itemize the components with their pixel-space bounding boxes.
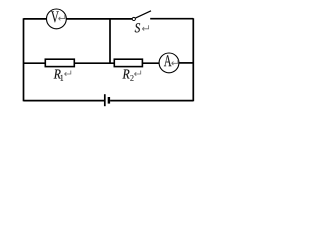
wire middle row left bbox=[24, 62, 46, 64]
R1 return mark bbox=[65, 70, 71, 75]
resistor R1 box bbox=[45, 59, 74, 66]
wire top middle segment bbox=[66, 18, 132, 20]
wire middle row center bbox=[74, 62, 114, 64]
battery long plate bbox=[104, 94, 106, 106]
wire bottom right segment bbox=[110, 100, 193, 102]
wire top left segment bbox=[24, 18, 47, 20]
wire middle vertical bbox=[109, 19, 111, 63]
switch return mark bbox=[142, 25, 148, 30]
resistor R2 box bbox=[114, 59, 142, 66]
ammeter return mark bbox=[172, 60, 178, 65]
wire left vertical bbox=[23, 18, 25, 101]
R2 return mark bbox=[134, 70, 140, 75]
switch S label bbox=[135, 23, 140, 32]
wire bottom left segment bbox=[24, 100, 105, 102]
voltmeter return mark bbox=[59, 15, 65, 20]
wire middle row to right edge bbox=[179, 62, 193, 64]
ammeter A label bbox=[164, 55, 172, 66]
switch S blade bbox=[135, 11, 151, 18]
resistor R1 label R bbox=[54, 70, 61, 79]
wire top right segment bbox=[150, 18, 193, 20]
voltmeter circle bbox=[47, 9, 67, 29]
wire right vertical bbox=[192, 18, 194, 101]
ammeter circle bbox=[159, 53, 179, 73]
resistor R1 subscript 1 bbox=[61, 75, 63, 81]
voltmeter V label bbox=[51, 11, 59, 22]
wire middle row right of R2 bbox=[142, 62, 159, 64]
switch S pivot circle bbox=[132, 17, 135, 20]
resistor R2 subscript 2 bbox=[130, 75, 133, 81]
battery short plate bbox=[108, 97, 110, 104]
resistor R2 label R bbox=[123, 70, 130, 79]
